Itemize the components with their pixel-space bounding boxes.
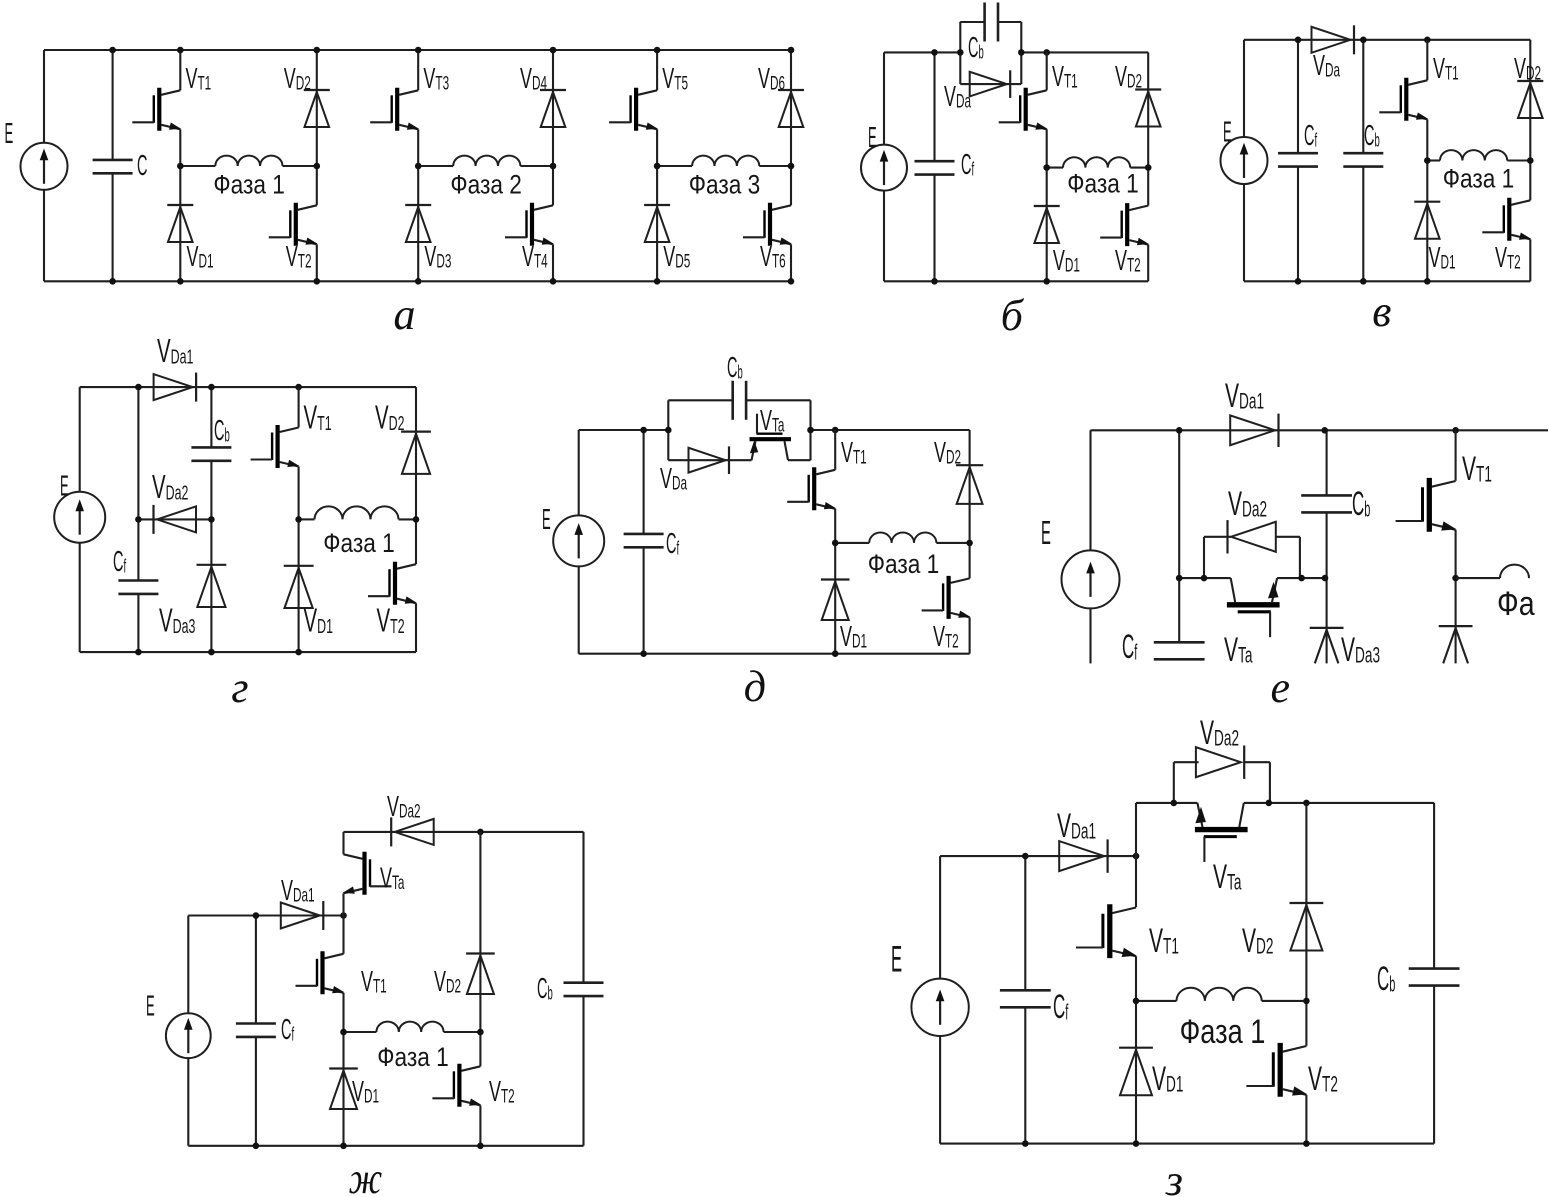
junction g rail-Cb [208, 384, 215, 391]
label Фаза 1 (circuit d) [868, 549, 940, 579]
svg-text:E: E [146, 990, 155, 1022]
wire d source branch lower [578, 567, 580, 654]
wire a VT4 collector [552, 166, 554, 205]
wire b source branch upper [883, 52, 885, 144]
svg-text:Фаза 1: Фаза 1 [1067, 169, 1139, 199]
wire a phase 2 winding leads [418, 165, 453, 167]
inductor phase winding Фаза 2 [453, 156, 520, 166]
svg-text:Фа: Фа [1497, 585, 1535, 623]
wire d phase winding right lead [936, 542, 969, 544]
wire b Cf branch lower [933, 175, 935, 282]
junction e phase node [1452, 575, 1459, 582]
junction d rail-snubber right [807, 427, 814, 434]
wire e Cb branch lower [1326, 512, 1328, 663]
diode VDa (circuit v) [1312, 25, 1355, 54]
label Фаза 1 (circuit z) [1180, 1012, 1266, 1051]
svg-text:E: E [1041, 516, 1051, 552]
label VT1 (circuit zh) [361, 966, 387, 998]
capacitor Cb (circuit z) [1409, 969, 1460, 986]
wire zh VT1 emitter to phase node [342, 993, 344, 1032]
wire z left rail [940, 855, 1136, 857]
svg-text:а: а [394, 290, 416, 339]
label Cb (circuit z) [1377, 960, 1395, 998]
junction zh bottom-VD1 [340, 1143, 347, 1150]
label Cf (circuit d) [666, 526, 680, 559]
diode VDa2 (circuit g) [154, 505, 197, 534]
diode VD2 (circuit v) [1517, 81, 1543, 118]
junction zh rail-center [340, 912, 347, 919]
wire z VDa2 right bracket [1269, 762, 1271, 803]
junction e rail-mid [1176, 427, 1183, 434]
label VDa (circuit d) [660, 463, 687, 495]
label VT1 (circuit v) [1433, 53, 1459, 85]
wire b source branch lower [883, 191, 885, 282]
inductor phase winding Фаза 1 [215, 156, 282, 166]
label VDa3 (circuit g) [159, 601, 195, 638]
svg-text:в: в [1372, 287, 1391, 336]
svg-text:Фаза 3: Фаза 3 [689, 170, 761, 200]
wire b snubber right bracket [1020, 22, 1022, 84]
junction zh upper rail-VD2 leg [477, 829, 484, 836]
inductor phase winding Фаза 1 (circuit zh) [376, 1022, 443, 1032]
junction a node (791,50) [788, 47, 795, 54]
wire a left leg through VD3 [417, 166, 419, 281]
wire d Cf branch upper [643, 430, 645, 534]
label VD5 [663, 241, 690, 273]
svg-text:Фаза 1: Фаза 1 [213, 170, 285, 200]
wire z left leg through VD1 [1135, 1001, 1137, 1144]
diode VD2 (circuit g) [401, 432, 431, 474]
transistor VT2 (circuit d) [922, 576, 971, 619]
transistor VT1 (circuit d) [787, 467, 836, 510]
junction v rail-Cf [1295, 37, 1302, 44]
junction g phase node right [413, 516, 420, 523]
label VT2 (circuit d) [933, 621, 959, 653]
wire e VDa2 right lead [1276, 536, 1300, 538]
junction a node (418,166) [415, 163, 422, 170]
wire zh VTa emitter wire [342, 893, 344, 915]
wire zh phase winding left lead [344, 1031, 377, 1033]
transistor VT2 (circuit zh) [432, 1064, 481, 1107]
junction a node (657,50) [654, 47, 661, 54]
label section b [1001, 291, 1025, 340]
wire a VT5 emitter to phase node [656, 129, 658, 166]
label VDa2 (circuit zh) [387, 791, 421, 823]
diode VD2 (circuit b) [1135, 90, 1161, 127]
wire e phase winding lead [1456, 577, 1500, 579]
svg-text:E: E [891, 939, 902, 980]
wire z Cf branch upper [1024, 856, 1026, 990]
wire b snubber left bracket [959, 22, 961, 84]
junction d rail-Cf [640, 427, 647, 434]
transistor VTa (circuit d) [750, 414, 792, 461]
wire d snubber left bracket [667, 400, 669, 460]
wire b left leg through VD1 [1046, 168, 1048, 282]
diode VDa2 (circuit zh) [391, 817, 434, 846]
label E (circuit z) [891, 939, 902, 980]
wire b right leg through VD2 [1147, 52, 1149, 167]
inductor phase winding Фаза 1 (circuit v) [1440, 150, 1507, 160]
label Фаза 2 [450, 170, 522, 200]
wire a capacitor C branch lower [112, 173, 114, 281]
inductor phase winding Фаза 1 (circuit g) [315, 506, 399, 519]
diode VD1 (circuit zh) [329, 1069, 358, 1110]
label VD2 (circuit z) [1242, 921, 1273, 959]
wire z center leg up [1135, 803, 1137, 856]
label VD1 (circuit g) [304, 601, 333, 638]
junction d bottom-VD1 [832, 650, 839, 657]
wire b VT1 emitter to phase node [1046, 129, 1048, 167]
label section z [1165, 1156, 1183, 1197]
wire zh Cb branch upper [582, 832, 584, 983]
label VT4 [522, 241, 548, 273]
wire a VT6 collector [790, 166, 792, 205]
wire b phase winding right lead [1130, 167, 1148, 169]
wire z right leg through VD2 [1305, 803, 1307, 1001]
wire b VT2 emitter to bottom rail [1147, 245, 1149, 282]
diode VD1 (circuit e) [1439, 626, 1473, 663]
diode VDa1 (circuit zh) [281, 901, 324, 930]
wire a VT3 emitter to phase node [417, 129, 419, 166]
diode VDa2 (circuit z) [1196, 746, 1244, 779]
diode VD1 (circuit v) [1414, 202, 1440, 239]
label section v [1372, 287, 1391, 336]
wire e node row left [1179, 577, 1231, 579]
wire d snubber bottom lead right [788, 459, 811, 461]
label VDa1 (circuit g) [157, 332, 193, 369]
label Cb (circuit e) [1352, 485, 1370, 523]
label Cb (circuit zh) [537, 971, 553, 1004]
junction zh bottom-Cf [253, 1143, 260, 1150]
junction z rail-center [1133, 853, 1140, 860]
capacitor Cb (circuit b) [985, 3, 998, 42]
wire e VDa2 left bracket [1203, 537, 1205, 578]
junction b bottom-VD1 [1043, 278, 1050, 285]
wire g source branch lower [79, 543, 81, 652]
wire a top rail [44, 49, 791, 51]
diode VDa2 (circuit e) [1228, 520, 1276, 553]
diode VDa1 (circuit e) [1230, 414, 1278, 447]
wire e mid branch to Cf [1178, 578, 1180, 642]
label C [137, 148, 147, 181]
transistor VT1 (circuit z) [1076, 904, 1137, 958]
wire a source branch lower [43, 190, 45, 281]
wire b bottom rail [884, 280, 1148, 282]
label VD1 (circuit b) [1053, 245, 1080, 277]
transistor VT1 (circuit g) [251, 425, 300, 468]
wire g VT2 emitter to bottom rail [415, 603, 417, 652]
wire z VT1 emitter to phase node [1135, 956, 1137, 1001]
wire a phase 1 winding leads [180, 165, 215, 167]
junction a node (553,281) [550, 278, 557, 285]
wire z source branch upper [939, 856, 941, 979]
diode VDa3 (circuit g) [197, 565, 227, 607]
wire v VT1 emitter to phase node [1426, 119, 1428, 160]
inductor phase winding Фаза 3 [692, 156, 759, 166]
wire b top rail left [884, 51, 960, 53]
junction a node (180,50) [177, 47, 184, 54]
svg-text:Фаза 1: Фаза 1 [377, 1042, 449, 1072]
transistor VT1 (circuit v) [1379, 78, 1428, 121]
wire z phase winding right lead [1262, 1000, 1307, 1002]
label VTa (circuit e) [1224, 630, 1253, 668]
label VD2 [284, 63, 311, 95]
current source E (circuit d) [553, 515, 604, 566]
diode VD2 (circuit z) [1290, 903, 1324, 951]
current source E (circuit e) [1062, 550, 1120, 608]
junction a node (317,50) [314, 47, 321, 54]
wire d phase winding left lead [835, 542, 869, 544]
inductor phase winding Фа... (circuit e) [1500, 565, 1529, 579]
label VT1 (circuit b) [1052, 61, 1078, 93]
label VDa2 (circuit z) [1200, 713, 1239, 751]
capacitor Cb (circuit d) [733, 381, 746, 420]
junction a node (418,281) [415, 278, 422, 285]
wire b Cf branch upper [933, 52, 935, 161]
label VT1 (circuit z) [1149, 921, 1179, 959]
wire v Cb branch lower [1362, 167, 1364, 282]
label Фаза 1 (circuit b) [1067, 169, 1139, 199]
label VD2 (circuit v) [1514, 53, 1541, 85]
wire g left leg through VD1 [298, 519, 300, 652]
wire zh VT2 emitter to bottom rail [479, 1105, 481, 1146]
wire b VT2 collector [1147, 168, 1149, 206]
junction b rail-snubber left [957, 49, 964, 56]
diode VD4 [540, 90, 566, 127]
label VT2 (circuit z) [1308, 1059, 1338, 1097]
transistor VT5 [609, 88, 658, 131]
svg-text:з: з [1165, 1156, 1183, 1197]
wire e leg through VD1 [1455, 578, 1457, 663]
diode VD3 [405, 205, 431, 242]
wire a VT1 emitter to phase node [179, 129, 181, 166]
wire d source branch upper [578, 430, 580, 515]
capacitor Cf (circuit zh) [236, 1024, 276, 1037]
junction a node (317,281) [314, 278, 321, 285]
junction g phase node left [295, 516, 302, 523]
label Фаза 1 (circuit g) [323, 528, 395, 558]
diode VDa1 (circuit g) [154, 373, 197, 402]
label VD2 (circuit b) [1115, 61, 1142, 93]
inductor phase winding Фаза 1 (circuit b) [1063, 157, 1130, 167]
wire a VT1 collector [179, 50, 181, 90]
wire a VT2 emitter to bottom rail [316, 244, 318, 281]
label VD1 (circuit v) [1429, 242, 1456, 274]
capacitor Cf (circuit b) [915, 161, 955, 174]
transistor VTa (circuit z) [1195, 803, 1248, 862]
label VD1 (circuit z) [1152, 1059, 1183, 1097]
diode VD1 [167, 205, 193, 242]
junction g aux-VDa2 [135, 516, 142, 523]
svg-text:Фаза 2: Фаза 2 [450, 170, 522, 200]
transistor VT2 [269, 203, 318, 246]
diode VD2 [304, 90, 330, 127]
wire a VT6 emitter to bottom rail [790, 244, 792, 281]
label VDa2 (circuit e) [1228, 484, 1267, 522]
wire e top rail [1091, 429, 1549, 431]
junction zh rail-Cf [253, 912, 260, 919]
svg-text:E: E [5, 117, 14, 149]
junction e node row 4 [1322, 575, 1329, 582]
label Cb (circuit g) [214, 413, 230, 446]
wire a phase 1 winding right lead [283, 165, 317, 167]
wire v bottom rail [1244, 280, 1530, 282]
label VD1 (circuit d) [840, 621, 867, 653]
diode VD1 (circuit d) [821, 580, 850, 621]
wire v phase winding right lead [1507, 159, 1530, 161]
label section a [394, 290, 416, 339]
junction d rail-VT1 [832, 427, 839, 434]
junction z bottom-Cf [1022, 1140, 1029, 1147]
junction v rail-VT1 [1424, 37, 1431, 44]
diode VDa (circuit b) [970, 70, 1011, 98]
junction v bottom-VD1 [1424, 278, 1431, 285]
junction a node (791,166) [788, 163, 795, 170]
junction g bottom-Cb [208, 649, 215, 656]
label VT1 (circuit d) [841, 437, 867, 469]
label VTa (circuit zh) [380, 862, 405, 894]
label VDa1 (circuit z) [1057, 806, 1096, 844]
svg-text:б: б [1001, 291, 1025, 340]
svg-text:г: г [231, 663, 248, 712]
junction z upper rail 2 [1266, 800, 1273, 807]
junction a node (791,281) [788, 278, 795, 285]
svg-text:д: д [744, 662, 766, 711]
wire b snubber top lead left [960, 21, 985, 23]
wire e VT1 collector [1455, 430, 1457, 481]
junction zh phase node right [477, 1029, 484, 1036]
capacitor Cf (circuit z) [1000, 990, 1051, 1007]
junction z bottom-VT2 [1303, 1140, 1310, 1147]
junction z rail-Cf [1022, 853, 1029, 860]
label VDa1 (circuit zh) [281, 875, 315, 907]
label VT2 (circuit g) [377, 601, 405, 638]
junction e rail-VT1 [1452, 427, 1459, 434]
diode VDa3 (circuit e) [1310, 628, 1344, 664]
transistor VT2 (circuit v) [1482, 198, 1531, 241]
wire d left leg through VD1 [834, 543, 836, 654]
wire d snubber bottom lead [668, 459, 751, 461]
wire g Cb branch lower [210, 461, 212, 652]
label VD4 [520, 63, 547, 95]
label VD1 (circuit zh) [352, 1076, 379, 1108]
wire g aux branch upper [137, 387, 139, 580]
wire z VT2 collector [1305, 1001, 1307, 1046]
label VT1 [186, 63, 212, 95]
label Фаза 1 (circuit zh) [377, 1042, 449, 1072]
svg-text:е: е [1271, 663, 1291, 712]
label VD2 (circuit zh) [434, 966, 461, 998]
wire zh left leg through VD1 [342, 1032, 344, 1146]
wire d top rail right [811, 429, 970, 431]
wire a VT4 emitter to bottom rail [552, 244, 554, 281]
wire g top rail [80, 386, 416, 388]
wire g source branch upper [79, 387, 81, 492]
wire d right leg through VD2 [969, 430, 971, 543]
label Фаза 1 [213, 170, 285, 200]
transistor VT1 (circuit b) [999, 88, 1048, 131]
junction v phase node left [1424, 157, 1431, 164]
wire a left leg through VD5 [656, 166, 658, 281]
label section d [744, 662, 766, 711]
wire d top rail left [579, 429, 669, 431]
capacitor Cb (circuit g) [191, 447, 231, 460]
current source E (circuit g) [54, 492, 105, 543]
junction z phase node left [1133, 998, 1140, 1005]
wire a left leg through VD1 [179, 166, 181, 281]
wire z Cf branch lower [1024, 1007, 1026, 1143]
junction a node (180,166) [177, 163, 184, 170]
label VDa (circuit b) [944, 81, 971, 113]
wire zh Cb branch lower [582, 996, 584, 1146]
capacitor Cb (circuit zh) [564, 983, 604, 996]
wire a VT3 collector [417, 50, 419, 90]
wire z upper rail left [1136, 802, 1197, 804]
label Фаза 1 (circuit v) [1443, 164, 1515, 194]
junction b phase node left [1043, 164, 1050, 171]
wire d snubber top lead left [668, 399, 733, 401]
svg-text:E: E [1223, 116, 1232, 148]
wire g right leg through VD2 [415, 387, 417, 519]
junction g Cb-VDa2 [208, 516, 215, 523]
wire a right leg through VD4 [552, 50, 554, 166]
junction a node (553,50) [550, 47, 557, 54]
junction a rail-C bottom [109, 278, 116, 285]
capacitor C [93, 160, 133, 173]
wire zh phase winding right lead [444, 1031, 481, 1033]
wire e VDa2 right bracket [1299, 537, 1301, 578]
label VDa2 (circuit g) [152, 468, 188, 505]
wire z VDa2 left bracket [1173, 762, 1175, 803]
wire d Cf branch lower [643, 547, 645, 653]
svg-text:E: E [542, 503, 551, 535]
label VTa (circuit z) [1213, 857, 1242, 895]
transistor VT2 (circuit b) [1100, 203, 1149, 246]
wire a VT5 collector [656, 50, 658, 90]
wire v phase winding left lead [1427, 159, 1440, 161]
label Фаза 3 [689, 170, 761, 200]
wire g phase winding left lead [299, 518, 315, 520]
label VT1 (circuit e) [1462, 449, 1492, 487]
junction v bottom-Cf [1295, 278, 1302, 285]
wire g bottom rail [80, 651, 416, 653]
wire zh VT2 collector [479, 1032, 481, 1066]
diode VD1 (circuit g) [284, 566, 314, 608]
transistor VT2 (circuit g) [368, 562, 417, 605]
label VT2 (circuit zh) [489, 1076, 515, 1108]
wire zh source branch lower [187, 1058, 189, 1146]
current source E (circuit a) [21, 143, 68, 190]
transistor VT4 [505, 203, 554, 246]
label Cb (circuit b) [968, 30, 984, 63]
diode VD2 (circuit zh) [466, 954, 495, 995]
wire e mid branch upper [1178, 430, 1180, 578]
diode VD2 (circuit d) [956, 465, 983, 504]
label VD2 (circuit d) [934, 437, 961, 469]
junction v rail-Cb [1360, 37, 1367, 44]
wire b snubber bottom lead [960, 83, 1021, 85]
wire zh VT1 collector [342, 916, 344, 954]
wire d VT2 emitter to bottom rail [969, 617, 971, 653]
junction b rail-Cf [931, 49, 938, 56]
junction b bottom-Cf [931, 278, 938, 285]
wire e Cb branch upper [1326, 430, 1328, 495]
wire a phase 2 winding right lead [520, 165, 553, 167]
wire v right leg through VD2 [1529, 40, 1531, 161]
svg-text:C: C [137, 148, 147, 181]
label VT6 [760, 241, 786, 273]
junction e node row 1 [1176, 575, 1183, 582]
